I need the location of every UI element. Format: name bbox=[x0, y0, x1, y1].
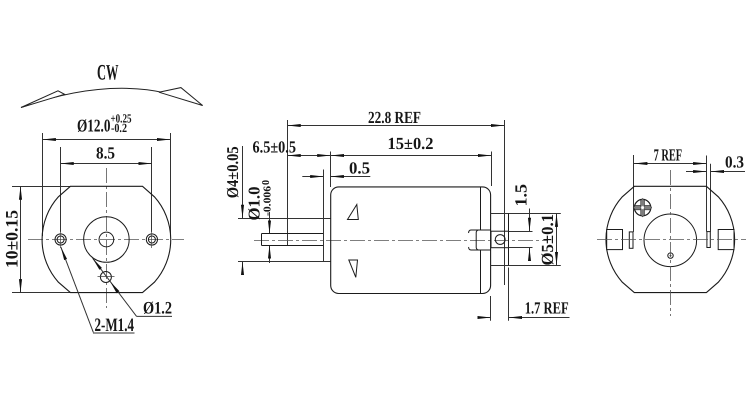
left M1.4 hole bbox=[55, 231, 66, 248]
rear outline bbox=[606, 186, 735, 292]
dimension 1.5 bbox=[509, 209, 533, 262]
vent triangle bottom bbox=[349, 260, 358, 277]
shaft bbox=[261, 234, 323, 246]
vent triangle top bbox=[348, 205, 359, 220]
dimension 15±0.2 bbox=[331, 152, 492, 188]
svg-text:0.3: 0.3 bbox=[725, 153, 744, 172]
screw head bbox=[633, 199, 651, 217]
left terminal tick bbox=[629, 232, 633, 248]
left brush tab bbox=[607, 230, 623, 250]
dimension 22.8 REF bbox=[287, 120, 504, 285]
rear plate bottom edge / Ø5 extension bbox=[491, 265, 561, 267]
centerline horizontal bbox=[594, 239, 746, 241]
svg-text:0.5: 0.5 bbox=[349, 159, 370, 178]
dimension Ø1.0 0/-0.006 bbox=[269, 212, 271, 263]
terminal boss square bbox=[491, 231, 509, 248]
dimension 1.7 REF bbox=[479, 268, 570, 321]
svg-text:-0.2: -0.2 bbox=[111, 121, 127, 135]
svg-text:8.5: 8.5 bbox=[96, 144, 115, 163]
bearing retainer clip bbox=[469, 230, 491, 250]
svg-text:CW: CW bbox=[97, 60, 119, 85]
dimension 8.5 bbox=[60, 147, 152, 232]
svg-text:22.8 REF: 22.8 REF bbox=[368, 108, 421, 127]
shaft end circle bbox=[668, 253, 673, 258]
shaft circle bbox=[99, 232, 114, 247]
dimension 10±0.15 bbox=[12, 186, 70, 292]
end cap seam bbox=[480, 187, 482, 293]
svg-text:6.5±0.5: 6.5±0.5 bbox=[253, 137, 297, 156]
rear inner circle bbox=[644, 214, 697, 267]
svg-text:1.5: 1.5 bbox=[512, 184, 531, 207]
dimension 0.3 bbox=[686, 156, 745, 232]
motor body bbox=[331, 187, 491, 294]
rear plate top edge / Ø5 extension bbox=[491, 213, 561, 215]
svg-text:Ø12.0: Ø12.0 bbox=[77, 116, 111, 136]
right terminal tick bbox=[707, 232, 710, 248]
rotation direction curved arrow bbox=[21, 88, 203, 108]
svg-text:Ø5±0.1: Ø5±0.1 bbox=[538, 214, 557, 266]
dimension Ø4±0.05 bbox=[238, 146, 331, 272]
right brush tab bbox=[718, 230, 734, 250]
dimension 0.5 bbox=[302, 176, 370, 178]
terminal hole bbox=[495, 235, 505, 245]
centerline horizontal bbox=[28, 239, 184, 241]
svg-text:15±0.2: 15±0.2 bbox=[388, 134, 434, 153]
dimension Ø5±0.1 bbox=[556, 213, 558, 265]
Ø4 boss face bbox=[323, 170, 325, 262]
svg-text:-0.006: -0.006 bbox=[263, 186, 274, 216]
rear plate right edge bbox=[508, 213, 510, 265]
centerline horizontal bbox=[254, 240, 548, 242]
leader 2-M1.4 (to left hole) bbox=[61, 247, 94, 332]
svg-text:Ø1.2: Ø1.2 bbox=[143, 298, 172, 318]
svg-text:Ø1.0: Ø1.0 bbox=[245, 187, 264, 221]
svg-text:7 REF: 7 REF bbox=[654, 146, 683, 165]
leader Ø1.2 (through hole to boss circle) bbox=[93, 258, 137, 316]
dimension 7 REF bbox=[634, 155, 707, 232]
svg-text:Ø4±0.05: Ø4±0.05 bbox=[223, 146, 242, 198]
centerline vertical bbox=[670, 170, 672, 316]
svg-text:1.7 REF: 1.7 REF bbox=[525, 299, 569, 318]
centerline vertical bbox=[106, 168, 108, 308]
svg-text:10±0.15: 10±0.15 bbox=[2, 210, 22, 268]
Ø1.2 hole bbox=[98, 272, 115, 283]
dimension Ø12.0 +0.25/-0.2 bbox=[42, 133, 170, 236]
motor face outline bbox=[42, 186, 171, 292]
svg-text:0: 0 bbox=[261, 180, 272, 185]
right M1.4 hole bbox=[146, 231, 157, 248]
bearing boss circle bbox=[84, 217, 129, 263]
dimension 6.5±0.5 bbox=[287, 155, 330, 157]
